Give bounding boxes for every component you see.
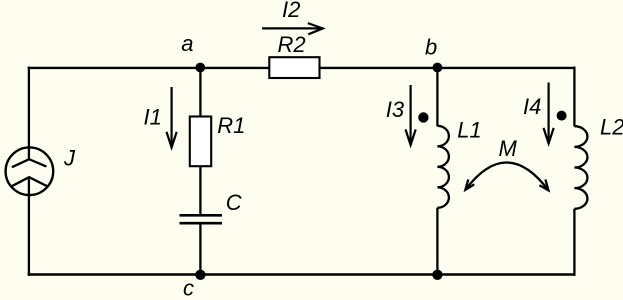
wire right (b to bottom-right corner, carries L2): [573, 67, 575, 127]
svg-text:R1: R1: [217, 113, 245, 138]
current arrow I4: [547, 83, 549, 144]
wire L1 to bottom rail: [436, 208, 438, 275]
capacitor C bottom plate: [180, 222, 223, 225]
wire left lower (J to bottom corner): [28, 177, 30, 276]
svg-text:c: c: [183, 276, 194, 300]
coupling polarity dot of L1: [418, 112, 428, 122]
wire top (a-b and full top rail): [28, 67, 576, 69]
svg-text:L2: L2: [600, 115, 623, 140]
current source J (circle): [6, 147, 54, 195]
inductor L1: [437, 126, 449, 208]
resistor R1: [190, 117, 211, 167]
wire middle branch upper (a to R1): [199, 68, 201, 121]
coupling polarity dot of L2: [557, 111, 567, 121]
svg-text:I4: I4: [523, 94, 541, 119]
node b: [433, 63, 443, 73]
wire left upper (top corner to J): [28, 67, 30, 160]
mutual coupling arc M: [465, 163, 548, 191]
svg-text:a: a: [181, 31, 193, 56]
wire bottom rail: [28, 273, 576, 275]
current source J upper chevron: [13, 159, 46, 167]
wire capacitor to bottom rail: [199, 223, 201, 275]
capacitor C top plate: [180, 214, 223, 217]
resistor R2: [269, 57, 319, 78]
svg-text:J: J: [63, 146, 76, 171]
wire b to L1: [436, 68, 438, 127]
current source J lower chevron: [12, 177, 47, 186]
node c: [195, 270, 205, 280]
svg-text:I1: I1: [144, 105, 162, 130]
current arrow I3: [410, 85, 412, 145]
svg-text:L1: L1: [457, 117, 481, 142]
junction at bottom of L1 branch: [432, 270, 442, 280]
svg-text:C: C: [226, 190, 242, 215]
svg-text:I3: I3: [386, 97, 405, 122]
inductor L2: [574, 126, 587, 209]
svg-text:M: M: [499, 136, 518, 161]
svg-text:I2: I2: [282, 0, 300, 22]
node a: [195, 63, 205, 73]
svg-text:R2: R2: [278, 32, 306, 57]
svg-text:b: b: [425, 35, 437, 60]
wire R1 to capacitor: [199, 166, 201, 216]
current arrow I2: [262, 27, 323, 29]
current arrow I1: [171, 87, 173, 147]
